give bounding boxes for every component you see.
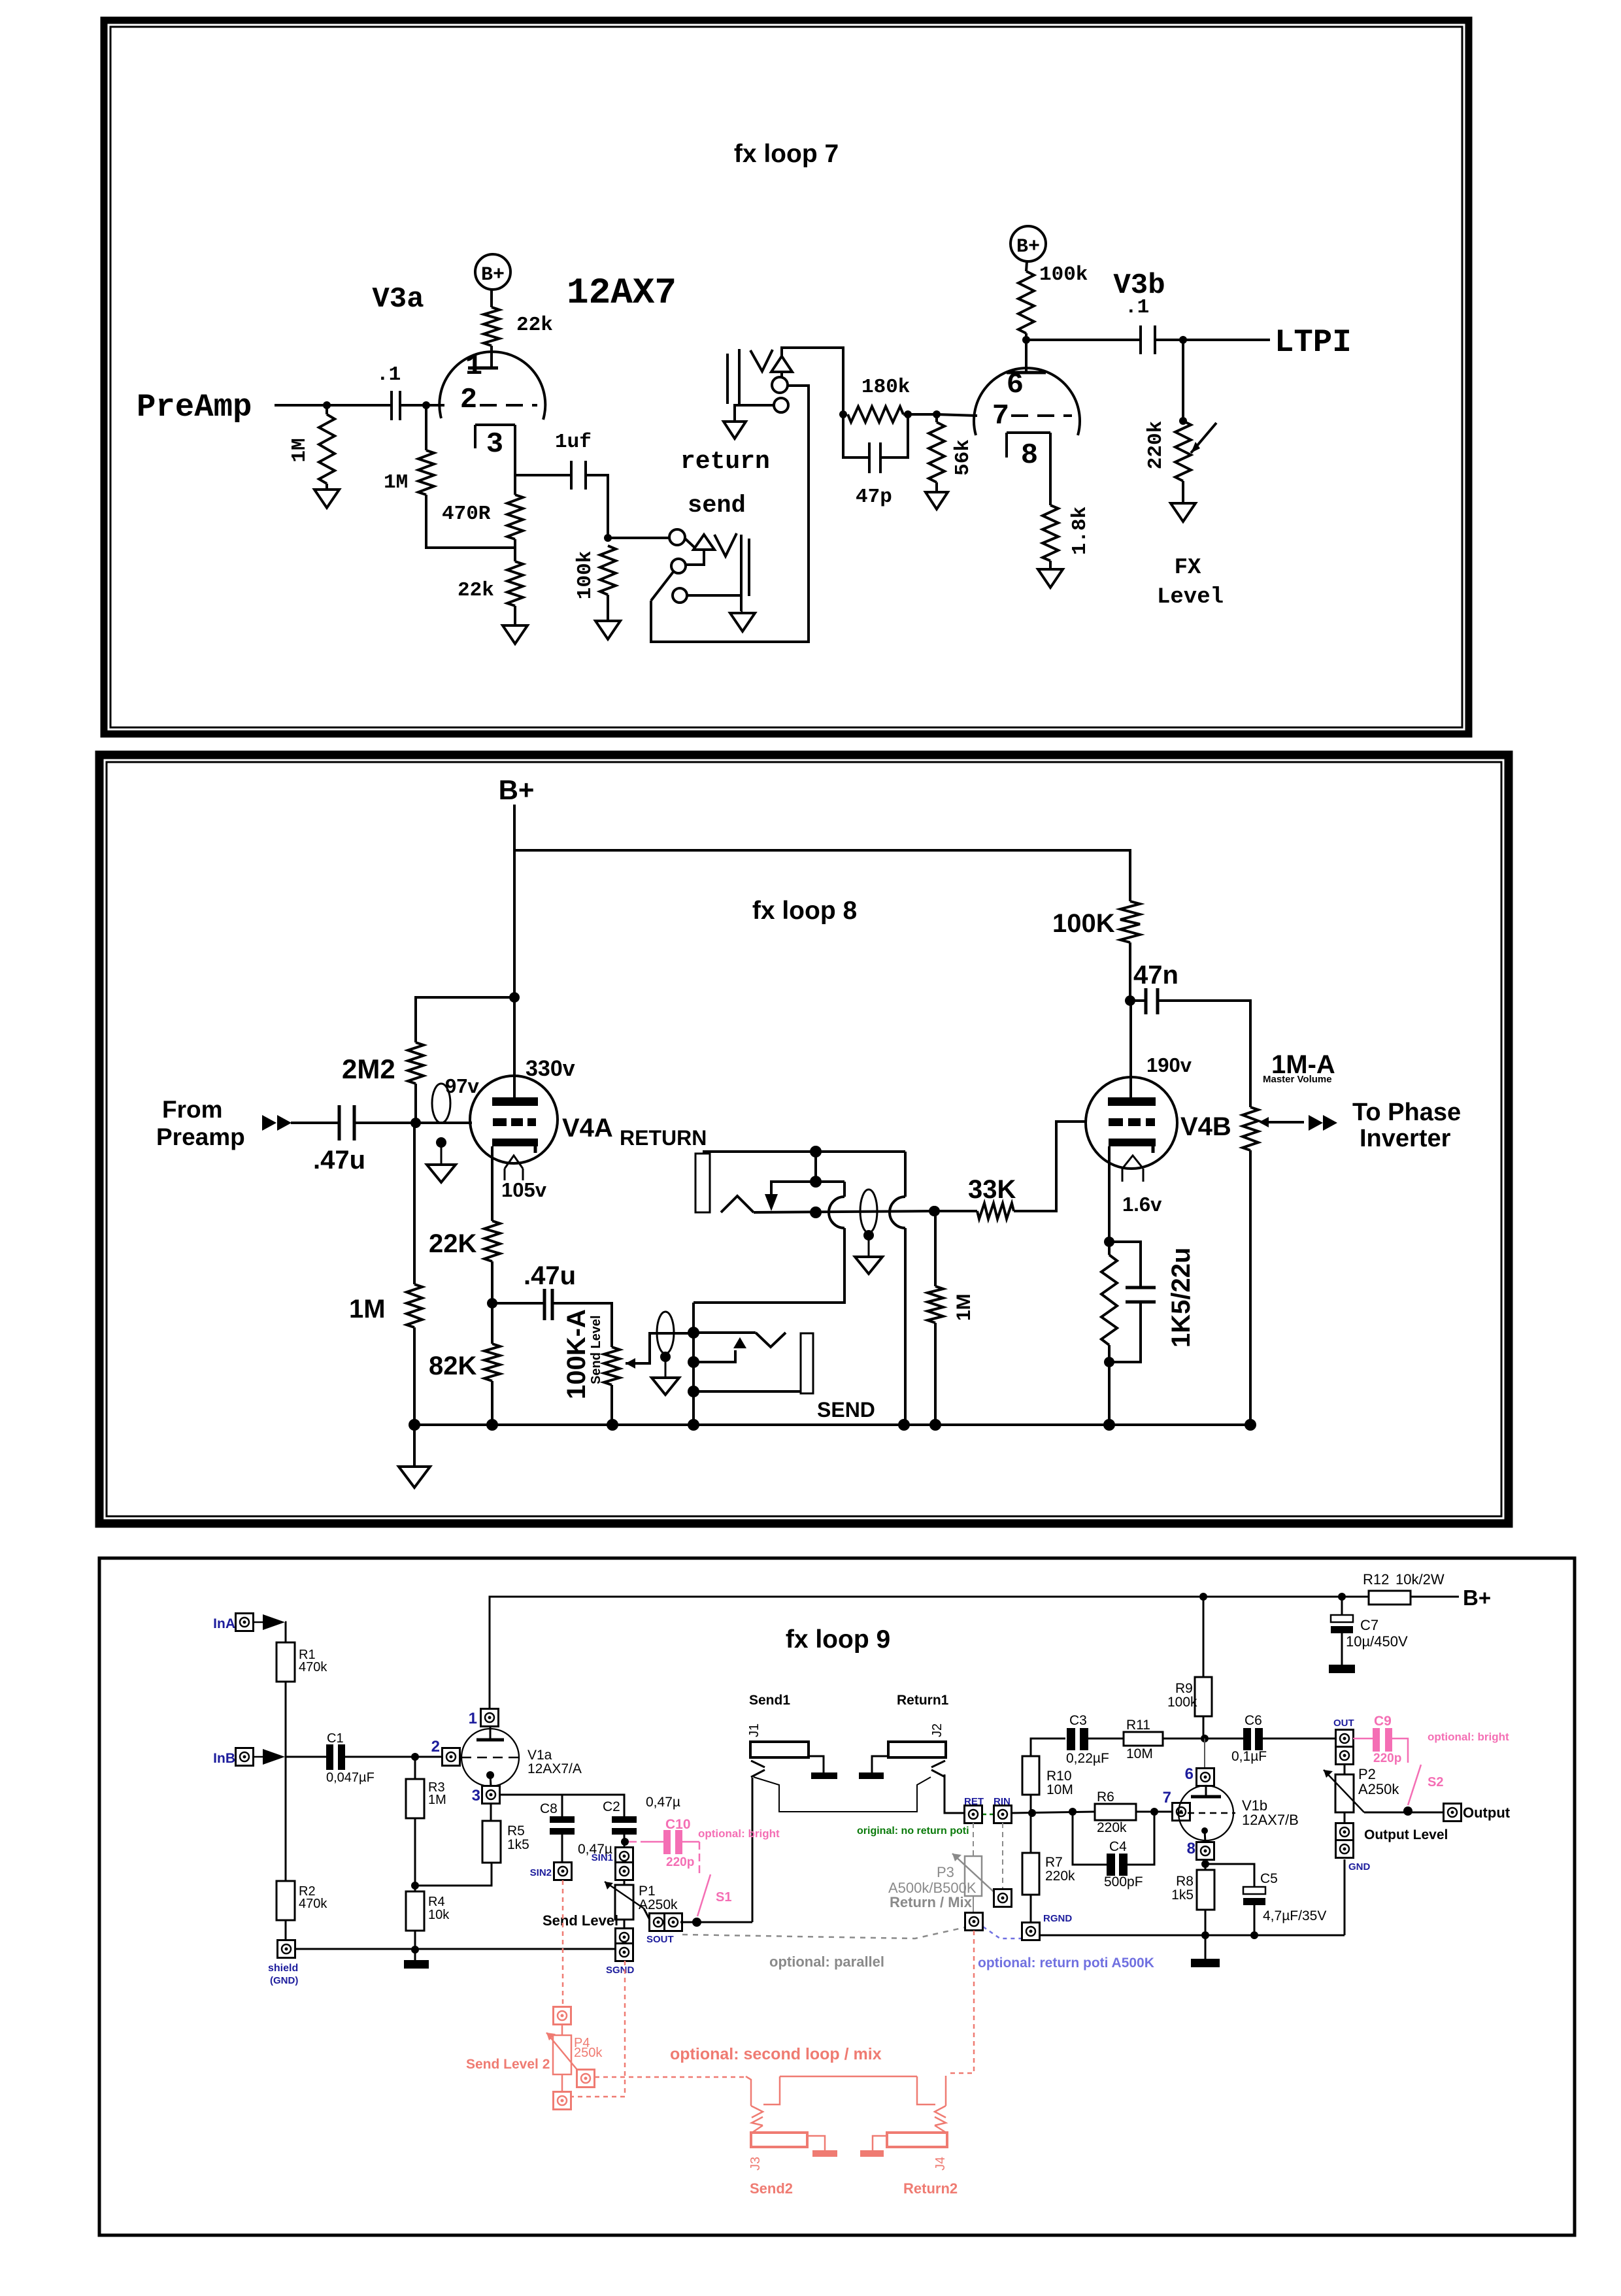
resistor 56k: [933, 410, 941, 418]
svg-text:Send2: Send2: [750, 2180, 793, 2197]
wiper P1 to SOUT: [644, 1908, 651, 1922]
svg-text:send: send: [688, 492, 746, 520]
node GND: [1344, 1812, 1346, 1823]
svg-text:7: 7: [992, 400, 1009, 433]
resistor R6 220k: [1095, 1804, 1136, 1820]
svg-text:SOUT: SOUT: [646, 1934, 674, 1945]
plate bar pin 1: [468, 367, 498, 370]
resistor 180k: [848, 407, 903, 422]
resistor 470R: [507, 495, 523, 539]
svg-text:J1: J1: [747, 1723, 761, 1737]
resistor 82K: [484, 1344, 500, 1381]
svg-text:Output: Output: [1463, 1805, 1511, 1821]
svg-text:C6: C6: [1245, 1713, 1262, 1728]
capacitor .47u (send): [492, 1302, 543, 1305]
resistor R3 1M: [414, 1757, 416, 1779]
svg-text:C3: C3: [1069, 1713, 1087, 1728]
svg-text:10M: 10M: [1126, 1746, 1153, 1761]
svg-text:47n: 47n: [1133, 961, 1178, 990]
panel 2 frame (fx loop 8): [99, 755, 1509, 1523]
svg-text:100K-A: 100K-A: [562, 1309, 591, 1399]
svg-text:SGND: SGND: [606, 1965, 635, 1976]
resistor R11 10M: [1088, 1738, 1124, 1740]
svg-text:100k: 100k: [1167, 1695, 1197, 1710]
svg-text:1K5/22u: 1K5/22u: [1167, 1248, 1195, 1348]
svg-text:RETURN: RETURN: [620, 1126, 707, 1150]
svg-text:7: 7: [1163, 1789, 1171, 1806]
svg-text:C2: C2: [603, 1799, 620, 1814]
capacitor C8: [550, 1816, 575, 1823]
return jack vertical: [904, 1152, 907, 1197]
svg-text:22k: 22k: [458, 579, 494, 602]
svg-text:(GND): (GND): [270, 1975, 298, 1986]
resistor R8 1k5: [1205, 1859, 1207, 1870]
cathode wire V4B: [1108, 1146, 1111, 1255]
shield wire: [295, 1948, 616, 1950]
resistor R10 10M: [1022, 1756, 1039, 1795]
capacitor 1uf: [570, 461, 573, 490]
resistor 1M (return): [934, 1211, 937, 1286]
panel 3 frame (fx loop 9): [99, 1558, 1575, 2235]
svg-text:1: 1: [469, 1710, 477, 1727]
svg-text:470R: 470R: [442, 503, 491, 525]
ground (pot): [1182, 481, 1184, 503]
svg-text:R6: R6: [1097, 1789, 1114, 1805]
wiper 1M-A: [1261, 1121, 1304, 1123]
svg-text:SIN2: SIN2: [530, 1867, 552, 1878]
svg-text:C5: C5: [1260, 1871, 1278, 1886]
P3 wiper terminal: [1002, 1823, 1003, 1889]
resistor R2 470k: [276, 1881, 295, 1920]
resistor R5 1k5: [490, 1803, 492, 1821]
ground (R4): [414, 1931, 416, 1960]
svg-text:R4: R4: [428, 1895, 445, 1909]
bottom ground rail: [414, 1423, 1250, 1426]
capacitor C6 0,1uF: [1243, 1728, 1251, 1750]
grid wire V4B + resistor 33K: [1014, 1122, 1086, 1211]
svg-text:56k: 56k: [952, 439, 975, 476]
cathode box pin 3: [475, 424, 515, 426]
wire 22k to plate: [490, 346, 493, 368]
resistor R9 100k: [1203, 1597, 1205, 1677]
svg-text:470k: 470k: [299, 1897, 327, 1911]
pot wiper arrow: [1191, 423, 1216, 453]
svg-text:B+: B+: [1016, 236, 1040, 258]
pin 8 terminal: [1205, 1831, 1205, 1842]
capacitor .1: [390, 391, 393, 420]
resistor 100K (V4B plate): [1120, 901, 1140, 942]
plate wire V4A: [513, 997, 516, 1101]
wire send to return loop: [694, 1228, 844, 1303]
svg-text:1M: 1M: [428, 1793, 446, 1807]
pot wiper: [626, 1333, 692, 1363]
resistor 100k (V3b plate): [1018, 271, 1034, 333]
resistor R7 220k: [1030, 1813, 1032, 1853]
wire Send1 tip down: [752, 1778, 754, 1922]
potentiometer P3: [973, 1823, 974, 1856]
wire InA to R1: [254, 1622, 263, 1623]
RETURN jack sleeve: [695, 1154, 710, 1212]
return jack tip: [771, 356, 792, 372]
resistor 22k (cathode): [507, 561, 523, 606]
svg-text:C7: C7: [1360, 1617, 1379, 1633]
send jack switch lever: [651, 572, 673, 601]
svg-text:SEND: SEND: [817, 1398, 875, 1422]
J2 pad: [872, 1756, 888, 1772]
svg-text:fx loop 9: fx loop 9: [786, 1625, 890, 1654]
potentiometer P4 250k (red): [554, 2007, 571, 2025]
B+ supply symbol (right): [1011, 226, 1046, 261]
RGND rail: [1039, 1935, 1345, 1937]
return jack wire: [754, 1211, 934, 1212]
resistor 1.8k: [1043, 505, 1058, 561]
resistor 2M2: [416, 997, 514, 1042]
B+ rail: [514, 850, 1130, 901]
J1 pad: [809, 1756, 824, 1772]
svg-text:10k: 10k: [428, 1908, 450, 1922]
wiper P2 to output: [1364, 1812, 1443, 1814]
svg-text:3: 3: [486, 428, 503, 461]
svg-text:.47u: .47u: [313, 1146, 365, 1174]
ground (V1b): [1205, 1935, 1207, 1959]
svg-text:22k: 22k: [516, 314, 553, 337]
wire RIN to grid: [1012, 1812, 1095, 1813]
capacitor C1: [326, 1744, 333, 1770]
send jack sleeve: [801, 1333, 813, 1393]
probe (send): [657, 1312, 674, 1354]
hop arc left: [829, 1197, 844, 1228]
svg-text:10µ/450V: 10µ/450V: [1346, 1633, 1408, 1650]
normalling wire J1-J2: [754, 1777, 931, 1812]
svg-text:8: 8: [1187, 1840, 1195, 1857]
tube V3b envelope: [974, 368, 1080, 435]
svg-text:105v: 105v: [501, 1178, 547, 1201]
svg-text:470k: 470k: [299, 1660, 327, 1674]
svg-text:V3a: V3a: [372, 283, 424, 316]
potentiometer 220k FX level: [1182, 340, 1184, 421]
svg-text:A250k: A250k: [1358, 1781, 1399, 1797]
svg-text:SIN1: SIN1: [592, 1852, 613, 1863]
svg-text:220p: 220p: [666, 1855, 694, 1869]
svg-text:fx loop 8: fx loop 8: [752, 897, 857, 925]
capacitor .47u (input): [291, 1122, 338, 1124]
cathode wire V4A: [491, 1146, 493, 1221]
jack J3 Send2 (red): [751, 2106, 763, 2118]
svg-text:33K: 33K: [968, 1175, 1016, 1204]
wire R1 to InB node: [285, 1682, 287, 1881]
svg-text:V4A: V4A: [562, 1114, 613, 1142]
svg-text:J2: J2: [930, 1723, 944, 1737]
svg-text:Preamp: Preamp: [156, 1123, 245, 1150]
svg-text:fx loop 7: fx loop 7: [734, 140, 839, 168]
svg-text:1M: 1M: [288, 438, 311, 462]
svg-text:6: 6: [1185, 1765, 1194, 1783]
wire 56k to grid V3b: [937, 414, 977, 416]
svg-text:.1: .1: [1125, 296, 1149, 319]
V4B cathode tail: [1122, 1156, 1143, 1169]
capacitor C3 0,22uF: [1067, 1728, 1075, 1750]
ground (1M input): [326, 484, 328, 490]
svg-text:0,47µ: 0,47µ: [646, 1795, 680, 1810]
cathode box pin 8: [1007, 431, 1050, 434]
switch S1: [682, 1841, 699, 1843]
svg-text:original: no return poti: original: no return poti: [857, 1825, 969, 1837]
B+ rail panel3: [490, 1597, 1369, 1708]
ground (1.8k): [1049, 561, 1052, 569]
svg-text:V4B: V4B: [1180, 1112, 1231, 1141]
svg-text:0,1µF: 0,1µF: [1231, 1749, 1267, 1764]
svg-text:1uf: 1uf: [555, 431, 592, 454]
return jack ring contact: [772, 377, 788, 393]
tube V1b: [1205, 1786, 1207, 1797]
svg-text:PreAmp: PreAmp: [137, 389, 252, 425]
svg-text:P3: P3: [937, 1864, 954, 1880]
ground (56k): [935, 482, 938, 492]
ground (100k): [607, 595, 609, 621]
capacitor C5: [1205, 1864, 1254, 1887]
ground symbol (rail): [413, 1425, 416, 1467]
wire cathode down: [514, 425, 516, 495]
wire cathode to 1uf: [515, 474, 571, 476]
svg-text:R7: R7: [1045, 1855, 1063, 1870]
svg-text:1k5: 1k5: [1171, 1888, 1194, 1903]
wire plate to .1 cap: [1026, 339, 1141, 341]
svg-text:GND: GND: [1348, 1861, 1371, 1872]
svg-text:C4: C4: [1109, 1839, 1127, 1854]
wire to LTPI: [1155, 339, 1270, 341]
svg-text:Send Level: Send Level: [543, 1912, 618, 1929]
pin 6 terminal: [1204, 1739, 1205, 1769]
svg-text:100k: 100k: [574, 551, 597, 599]
svg-text:Send1: Send1: [749, 1693, 790, 1708]
wire return tip to 180k: [782, 348, 843, 414]
wire B+ down: [513, 805, 516, 997]
send jack V notch: [714, 533, 737, 556]
send jack NC contact: [694, 1350, 735, 1362]
svg-text:1M: 1M: [349, 1295, 386, 1323]
return jack sleeve: [726, 354, 729, 404]
node shield: [278, 1940, 295, 1958]
svg-text:B+: B+: [1463, 1586, 1491, 1610]
wire PreAmp to cap: [275, 404, 390, 407]
svg-text:From: From: [162, 1096, 223, 1123]
svg-text:return: return: [680, 448, 770, 476]
svg-text:.1: .1: [376, 363, 401, 386]
potentiometer 1M-A master volume: [1249, 1104, 1252, 1107]
svg-text:220k: 220k: [1045, 1869, 1075, 1884]
node Output: [1444, 1804, 1462, 1822]
svg-text:C1: C1: [327, 1731, 344, 1746]
svg-text:100k: 100k: [1039, 263, 1088, 286]
svg-text:R8: R8: [1176, 1874, 1194, 1889]
svg-text:220p: 220p: [1373, 1752, 1401, 1765]
svg-text:J4: J4: [933, 2157, 948, 2171]
node SGND: [624, 1920, 626, 1929]
potentiometer P1 A250k: [624, 1880, 626, 1885]
svg-text:J3: J3: [748, 2157, 763, 2171]
resistor R1 470k: [276, 1642, 295, 1682]
capacitor .1 (output): [1139, 325, 1142, 354]
svg-text:1.8k: 1.8k: [1069, 507, 1092, 555]
V4A cathode tail: [505, 1156, 523, 1169]
send jack tip: [694, 1331, 756, 1334]
svg-text:82K: 82K: [429, 1352, 476, 1380]
svg-text:Return2: Return2: [903, 2180, 958, 2197]
plate wire V4B: [1129, 1001, 1132, 1101]
svg-text:Inverter: Inverter: [1360, 1125, 1451, 1152]
svg-text:B+: B+: [481, 264, 505, 286]
svg-text:47p: 47p: [856, 486, 892, 508]
svg-text:Master Volume: Master Volume: [1263, 1074, 1332, 1085]
svg-text:Send Level 2: Send Level 2: [466, 2057, 550, 2072]
svg-text:2: 2: [431, 1738, 440, 1755]
resistor 1M (input): [413, 1123, 416, 1284]
send jack sleeve: [740, 535, 743, 611]
svg-text:optional: second loop / mix: optional: second loop / mix: [670, 2045, 882, 2063]
capacitor 47p: [843, 414, 869, 458]
resistor R12 10k/2W: [1338, 1593, 1346, 1601]
svg-text:12AX7/B: 12AX7/B: [1242, 1812, 1299, 1828]
ground (send sleeve): [730, 613, 755, 631]
resistor 22k (plate): [484, 307, 499, 346]
svg-text:R9: R9: [1175, 1681, 1193, 1696]
svg-text:8: 8: [1021, 439, 1038, 472]
svg-text:C9: C9: [1374, 1714, 1392, 1729]
capacitor C10 optional: [629, 1841, 648, 1843]
resistor 22K: [484, 1221, 500, 1261]
svg-text:220k: 220k: [1145, 421, 1167, 469]
RETURN jack NC arrow: [765, 1194, 778, 1211]
svg-text:R10: R10: [1046, 1769, 1072, 1784]
svg-text:2: 2: [460, 384, 477, 416]
capacitor 22u: [1109, 1242, 1141, 1288]
svg-text:P1: P1: [639, 1884, 656, 1899]
wire 1uf to send node: [586, 475, 608, 538]
svg-text:12AX7: 12AX7: [567, 272, 677, 314]
resistor R4 10k: [406, 1891, 424, 1931]
capacitor C2: [612, 1816, 637, 1823]
red dashed SGND down: [571, 1961, 625, 2097]
svg-text:1M: 1M: [384, 471, 408, 494]
svg-text:250k: 250k: [574, 2046, 603, 2060]
red dashed P4 wiper to loop: [595, 2076, 746, 2078]
svg-text:330v: 330v: [526, 1056, 575, 1081]
wire B+ to 22k: [490, 290, 493, 307]
wire cap to tube: [400, 404, 444, 407]
svg-text:Send Level: Send Level: [589, 1315, 603, 1384]
svg-text:12AX7/A: 12AX7/A: [527, 1761, 582, 1776]
dashed return poti link: [983, 1927, 1021, 1938]
svg-text:C10: C10: [665, 1817, 691, 1832]
svg-text:RGND: RGND: [1043, 1913, 1072, 1924]
svg-text:97v: 97v: [445, 1074, 479, 1097]
second loop wires (red): [746, 2076, 751, 2106]
send jack column: [692, 1303, 695, 1425]
wire send switch loop: [651, 386, 809, 642]
resistor 100k (send): [600, 546, 616, 595]
svg-text:C8: C8: [540, 1801, 558, 1816]
svg-text:To Phase: To Phase: [1352, 1099, 1461, 1126]
svg-text:V1a: V1a: [527, 1748, 552, 1763]
node grid junction: [323, 401, 331, 409]
hop arc right: [890, 1197, 905, 1228]
svg-text:Output Level: Output Level: [1364, 1827, 1448, 1842]
wire J2 tip to RET: [944, 1774, 965, 1813]
svg-text:FX: FX: [1175, 556, 1201, 580]
return jack V notch: [750, 350, 773, 371]
node SIN2: [561, 1835, 563, 1863]
tube V4A: [470, 1076, 558, 1163]
resistor 1M (input): [326, 405, 328, 414]
wire to 1M grid resistor: [426, 495, 515, 548]
B+ supply symbol (left): [475, 254, 510, 290]
ground (22k): [514, 606, 516, 625]
wire to V4A grid: [416, 1122, 472, 1124]
RETURN jack tip: [721, 1196, 754, 1212]
svg-text:180k: 180k: [861, 376, 910, 399]
tube V4B: [1086, 1077, 1177, 1169]
wire pin3 to C8 C2: [500, 1795, 624, 1816]
svg-text:10k/2W: 10k/2W: [1395, 1571, 1445, 1588]
capacitor C9 optional (pink): [1353, 1738, 1373, 1740]
svg-text:220k: 220k: [1097, 1820, 1127, 1835]
svg-text:Return / Mix: Return / Mix: [890, 1894, 973, 1910]
svg-text:100K: 100K: [1052, 909, 1115, 938]
red dashed second loop link right: [949, 1931, 974, 2073]
tube V3a envelope: [439, 352, 545, 420]
svg-text:optional: bright: optional: bright: [1428, 1731, 1509, 1743]
svg-text:1.6v: 1.6v: [1122, 1193, 1162, 1216]
potentiometer 100K-A send level: [604, 1347, 620, 1385]
svg-text:P2: P2: [1358, 1766, 1376, 1782]
svg-text:22K: 22K: [429, 1229, 476, 1258]
svg-text:.47u: .47u: [524, 1261, 576, 1290]
svg-text:4,7µF/35V: 4,7µF/35V: [1263, 1908, 1326, 1923]
potentiometer P2 A250k: [1344, 1764, 1346, 1774]
svg-text:R5: R5: [507, 1823, 525, 1838]
svg-text:Level: Level: [1157, 585, 1224, 610]
svg-text:1k5: 1k5: [507, 1837, 529, 1852]
svg-text:S1: S1: [716, 1890, 731, 1905]
svg-text:S2: S2: [1428, 1775, 1443, 1789]
svg-text:InB: InB: [213, 1751, 235, 1766]
svg-text:190v: 190v: [1146, 1054, 1192, 1076]
svg-text:LTPI: LTPI: [1275, 324, 1352, 361]
svg-text:3: 3: [472, 1787, 480, 1805]
svg-text:10M: 10M: [1046, 1782, 1073, 1797]
tube V1a: [461, 1729, 519, 1786]
svg-text:0,047µF: 0,047µF: [326, 1771, 375, 1785]
svg-text:OUT: OUT: [1333, 1718, 1354, 1729]
svg-text:optional: return poti A500K: optional: return poti A500K: [978, 1955, 1154, 1971]
capacitor C4 500pF: [1073, 1812, 1107, 1865]
svg-text:2M2: 2M2: [342, 1054, 395, 1084]
svg-text:R11: R11: [1126, 1718, 1150, 1733]
svg-text:B+: B+: [499, 774, 535, 805]
panel 1 frame (fx loop 7): [104, 20, 1469, 734]
node SIN1: [624, 1835, 626, 1848]
input arrows: [262, 1115, 276, 1131]
red dashed SIN2 down: [562, 1880, 564, 2006]
svg-text:0,22µF: 0,22µF: [1066, 1751, 1109, 1766]
resistor 1K5: [1101, 1255, 1117, 1345]
resistor 1M (grid): [418, 450, 434, 495]
svg-text:optional: parallel: optional: parallel: [769, 1954, 884, 1970]
svg-text:InA: InA: [213, 1616, 235, 1631]
svg-text:500pF: 500pF: [1104, 1874, 1143, 1889]
switch S2 (pink): [1408, 1765, 1421, 1805]
svg-text:shield: shield: [268, 1963, 298, 1974]
